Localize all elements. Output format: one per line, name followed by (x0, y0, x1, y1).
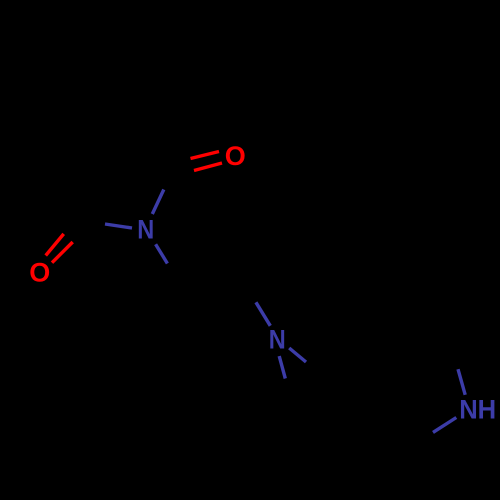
svg-text:O: O (29, 258, 50, 288)
bond N1-C5 (N-half) (105, 224, 132, 228)
svg-text:N: N (137, 215, 154, 245)
bond C2=O1 double bond (O-half, lower line) (194, 163, 222, 171)
svg-text:O: O (225, 141, 246, 171)
bond N2-CH2 chain (N-half) (256, 302, 270, 326)
bond N3H-C down-left (N-half) (433, 418, 456, 433)
svg-text:N: N (269, 325, 286, 355)
svg-text:NH: NH (459, 395, 496, 425)
bond N3H-C up (N-half) (458, 369, 465, 395)
bond C2=O1 double bond (O-half, upper line) (191, 152, 220, 159)
bond C5=O2 double bond (O-half, lower line) (52, 242, 73, 263)
bond N1-C2 (N-half) (152, 190, 164, 215)
bond N1-CH2 (N-half) (156, 244, 168, 263)
bond N2-C ring down (N-half) (279, 356, 285, 378)
bond C5=O2 double bond (O-half, upper line) (46, 234, 64, 256)
bond N2-C ring right (N-half) (289, 348, 306, 362)
